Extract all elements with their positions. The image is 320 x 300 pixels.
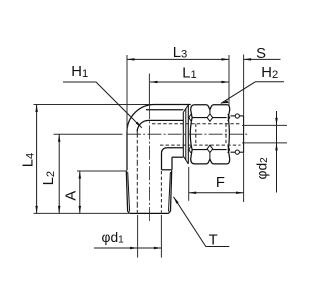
- arrowhead L1 right: [222, 81, 230, 84]
- tube stub bottom edge: [231, 151, 244, 153]
- centerline vertical: [148, 74, 150, 106]
- dimension L2 line: [58, 134, 60, 213]
- body arm upper line: [146, 109, 183, 111]
- extension line A top (y=171): [77, 170, 128, 172]
- svg-text:S: S: [256, 46, 266, 62]
- hidden line bore top: [152, 123, 241, 125]
- extension line left (x=127.5 above body for L3): [126, 55, 128, 132]
- leader T: [174, 197, 230, 247]
- thread bottom edge: [130, 212, 169, 214]
- extension line right of nut (x=229): [228, 55, 230, 106]
- thread left inner line: [128, 172, 130, 212]
- arrowhead A bottom: [79, 206, 82, 214]
- extension line phi-d2 top: [242, 124, 287, 126]
- thread left outer taper: [126, 170, 129, 213]
- hex step bottom line: [172, 156, 183, 158]
- nut diamond bottom: [207, 145, 213, 152]
- hidden line bore bottom: [160, 144, 241, 146]
- arrowhead S left-pointing: [244, 58, 252, 61]
- extension line phi-d1 right: [160, 215, 162, 258]
- hidden line thread bore left: [136, 132, 138, 213]
- nut half diamond right top: [228, 114, 230, 121]
- washer chamfer bottom: [183, 156, 188, 164]
- dimension phi-d1 line: [94, 247, 161, 249]
- arrowhead L3 left: [127, 58, 135, 61]
- washer left edge: [182, 112, 184, 156]
- dimension L3 line: [127, 58, 229, 60]
- svg-text:T: T: [209, 233, 218, 249]
- dimension L4 line: [36, 105, 38, 214]
- arrowhead phi-d2 bottom pointing up: [275, 143, 278, 151]
- nut diamond top: [207, 114, 213, 121]
- neck top line: [149, 119, 184, 121]
- tube stub top edge: [231, 115, 244, 117]
- dimension F line: [189, 192, 244, 194]
- dimension L1 line: [150, 81, 229, 83]
- dimension phi-d2 line: [276, 111, 278, 193]
- arrowhead phi-d1 at right ext pointing right: [154, 247, 162, 250]
- arrowhead leader H1: [136, 122, 142, 128]
- leader H2: [221, 82, 284, 104]
- arrowhead L2 bottom: [58, 206, 61, 214]
- hex step vertical: [171, 157, 173, 170]
- elbow left edge: [126, 132, 128, 171]
- gasket circle top: [235, 114, 239, 118]
- nut face line top: [192, 117, 227, 119]
- extension line tube end upper: [243, 55, 245, 116]
- tube end face: [243, 116, 245, 152]
- arrowhead leader H2: [221, 100, 229, 103]
- extension line top (y=104.5, L4 top / body top): [34, 104, 155, 106]
- arrowhead phi-d1 at left ext pointing right: [130, 247, 138, 250]
- centerline horizontal: [54, 133, 123, 135]
- extension line tube end lower: [243, 152, 245, 202]
- arrowhead F left: [189, 192, 197, 195]
- arrowhead F right: [236, 192, 244, 195]
- hidden line nut left: [195, 124, 197, 145]
- gasket circle bottom: [235, 150, 239, 154]
- nut outline: [190, 105, 229, 164]
- arrowhead L2 top: [58, 134, 61, 142]
- washer chamfer top: [183, 105, 188, 113]
- arrowhead L3 right: [222, 58, 230, 61]
- dimension A line: [79, 171, 81, 213]
- nut half diamond left bottom: [189, 146, 191, 153]
- arrowhead leader T: [174, 197, 179, 204]
- arrowhead A top: [79, 171, 82, 179]
- neck bottom line: [167, 147, 184, 149]
- washer bevel mid edge: [185, 109, 187, 160]
- thread right outer taper: [169, 170, 172, 213]
- arrowhead phi-d2 top pointing down: [275, 118, 278, 126]
- hidden line thread bore right: [160, 171, 162, 213]
- svg-text:F: F: [216, 175, 225, 191]
- nut notch connector bottom: [209, 153, 211, 160]
- hidden line nut right: [225, 124, 227, 145]
- nut face line bottom: [192, 149, 227, 151]
- arrowhead L4 bottom: [35, 206, 38, 214]
- body top edge: [155, 104, 191, 106]
- extension line phi-d2 bottom: [242, 142, 287, 144]
- thread right inner line: [169, 172, 171, 212]
- nut half diamond right bottom: [228, 146, 230, 153]
- arrowhead L1 left: [150, 81, 158, 84]
- extension line phi-d1 left: [137, 215, 139, 258]
- elbow outer arc: [127, 105, 155, 132]
- nut notch connector top: [209, 110, 211, 114]
- washer right face: [187, 105, 189, 164]
- arrowhead L4 top: [35, 105, 38, 113]
- elbow inner arc bottom: [162, 148, 167, 153]
- nut half diamond left top: [189, 114, 191, 121]
- extension line F left: [188, 167, 190, 201]
- svg-text:A: A: [64, 191, 80, 201]
- elbow inner arc top: [137, 120, 148, 131]
- extension line bottom (y=213.4 for L4/L2/A): [34, 212, 130, 214]
- dimension S line: [244, 58, 281, 60]
- leader H1: [63, 82, 142, 128]
- thread shoulder right: [162, 169, 172, 171]
- neck right vertical: [161, 153, 163, 170]
